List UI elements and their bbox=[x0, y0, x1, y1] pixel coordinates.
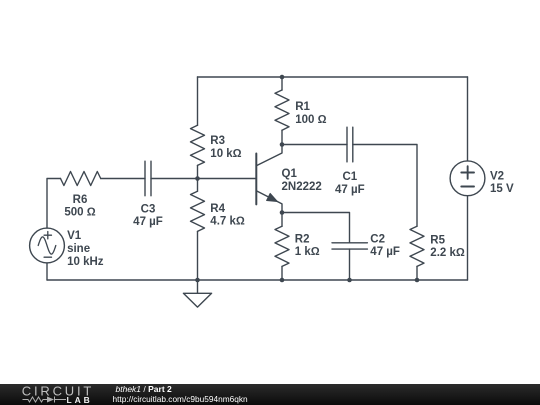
svg-text:47 µF: 47 µF bbox=[133, 216, 163, 228]
svg-text:R2: R2 bbox=[295, 234, 310, 246]
svg-text:C2: C2 bbox=[370, 234, 385, 246]
svg-text:Q1: Q1 bbox=[282, 168, 298, 180]
svg-text:1 kΩ: 1 kΩ bbox=[295, 246, 320, 258]
svg-text:http://circuitlab.com/c9bu594n: http://circuitlab.com/c9bu594nm6qkn bbox=[113, 394, 249, 404]
svg-text:V1: V1 bbox=[67, 230, 82, 242]
svg-text:bthek1 / Part 2: bthek1 / Part 2 bbox=[116, 384, 173, 394]
svg-text:R4: R4 bbox=[210, 203, 225, 215]
svg-text:C1: C1 bbox=[342, 171, 357, 183]
svg-text:500 Ω: 500 Ω bbox=[64, 207, 95, 219]
svg-text:R1: R1 bbox=[295, 101, 310, 113]
svg-text:47 µF: 47 µF bbox=[335, 184, 365, 196]
svg-text:15 V: 15 V bbox=[490, 183, 514, 195]
svg-text:100 Ω: 100 Ω bbox=[295, 114, 326, 126]
svg-text:2.2 kΩ: 2.2 kΩ bbox=[430, 247, 465, 259]
svg-text:10 kHz: 10 kHz bbox=[67, 256, 104, 268]
svg-text:2N2222: 2N2222 bbox=[282, 181, 322, 193]
svg-text:LAB: LAB bbox=[67, 395, 93, 405]
svg-text:C3: C3 bbox=[141, 203, 156, 215]
svg-text:4.7 kΩ: 4.7 kΩ bbox=[210, 216, 245, 228]
svg-text:sine: sine bbox=[67, 243, 90, 255]
svg-text:10 kΩ: 10 kΩ bbox=[210, 148, 241, 160]
svg-text:V2: V2 bbox=[490, 171, 504, 183]
svg-text:R6: R6 bbox=[73, 194, 88, 206]
svg-text:47 µF: 47 µF bbox=[370, 246, 400, 258]
svg-text:R5: R5 bbox=[430, 235, 445, 247]
svg-text:R3: R3 bbox=[210, 135, 225, 147]
